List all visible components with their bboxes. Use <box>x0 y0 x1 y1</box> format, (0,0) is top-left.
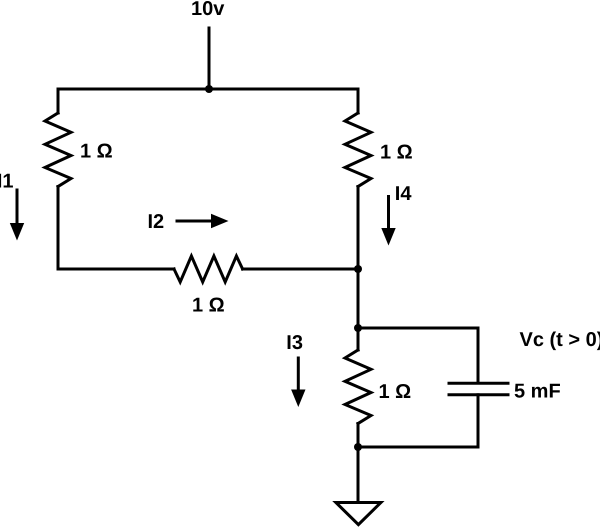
current arrow I4 shaft <box>387 197 390 230</box>
wire left branch upper <box>57 89 60 113</box>
resistor left 1 ohm zigzag <box>45 113 71 187</box>
wire bottom resistor to node C <box>357 424 360 448</box>
wire from 10v down to top node <box>208 28 211 89</box>
capacitor C plates 5 mF <box>449 382 508 385</box>
wire left branch lower <box>57 187 60 270</box>
svg-text:1 Ω: 1 Ω <box>192 294 225 316</box>
wire node B down to bottom resistor <box>357 328 360 350</box>
node B junction to capacitor branch <box>354 324 362 332</box>
resistor right 1 ohm zigzag <box>345 113 371 187</box>
wire right branch upper <box>357 89 360 113</box>
current arrow I1 head <box>10 223 24 241</box>
svg-text:I1: I1 <box>0 170 13 192</box>
svg-text:I3: I3 <box>286 332 303 354</box>
wire bottom-left horizontal segment <box>58 268 174 271</box>
svg-text:1 Ω: 1 Ω <box>80 141 113 163</box>
node C bottom junction <box>354 443 362 451</box>
wire capacitor branch lower vertical <box>477 395 480 447</box>
wire right branch middle to node A <box>357 187 360 270</box>
wire node C down to ground <box>357 447 360 503</box>
svg-text:I4: I4 <box>395 183 413 205</box>
node A junction of middle resistor <box>354 265 362 273</box>
current arrow I3 shaft <box>297 358 300 391</box>
wire node A down to node B <box>357 269 360 328</box>
svg-text:I2: I2 <box>148 211 165 233</box>
svg-text:1 Ω: 1 Ω <box>379 381 412 403</box>
current arrow I1 shaft <box>16 190 19 224</box>
svg-text:10v: 10v <box>191 0 225 20</box>
current arrow I3 head <box>291 390 305 408</box>
current arrow I4 head <box>381 228 395 246</box>
svg-text:5 mF: 5 mF <box>514 381 561 403</box>
ground symbol <box>336 503 381 525</box>
svg-text:1 Ω: 1 Ω <box>380 142 413 164</box>
resistor middle 1 ohm zigzag <box>174 256 243 282</box>
current arrow I2 shaft <box>177 220 212 223</box>
wire capacitor branch upper vertical <box>477 328 480 383</box>
svg-text:Vc (t > 0): Vc (t > 0) <box>520 329 600 351</box>
node top junction <box>205 85 213 93</box>
wire capacitor branch top horizontal <box>358 327 478 330</box>
current arrow I2 head <box>211 214 229 228</box>
wire top horizontal rail <box>58 88 358 91</box>
resistor bottom 1 ohm zigzag <box>345 350 371 424</box>
wire middle horizontal right segment <box>243 268 358 271</box>
wire capacitor branch bottom horizontal <box>358 446 478 449</box>
